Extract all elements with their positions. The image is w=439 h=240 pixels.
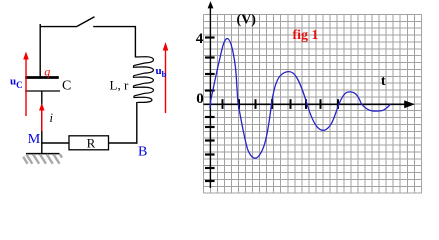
- switch K blade: [77, 17, 95, 27]
- svg-text:R: R: [87, 135, 96, 150]
- wire M to resistor: [41, 142, 69, 144]
- wire right vertical upper (coil to top): [134, 26, 136, 58]
- x-axis: [204, 100, 416, 108]
- svg-text:4: 4: [196, 31, 204, 47]
- ground hatching: [23, 154, 62, 164]
- svg-text:M: M: [28, 132, 41, 147]
- wire below capacitor to M: [41, 91, 43, 143]
- svg-text:B: B: [138, 144, 147, 159]
- svg-text:L, r: L, r: [110, 78, 129, 93]
- svg-text:C: C: [62, 79, 71, 94]
- voltage arrow ub: [163, 42, 169, 113]
- ground plate: [26, 153, 60, 155]
- wire right vertical lower (B to coil): [136, 102, 138, 144]
- damped oscillation curve: [210, 39, 391, 159]
- y-axis ticks: [205, 38, 215, 182]
- capacitor C bottom plate: [25, 90, 60, 92]
- svg-text:t: t: [381, 74, 386, 89]
- wire top-left horizontal: [40, 26, 77, 28]
- svg-text:0: 0: [196, 91, 204, 107]
- svg-text:q: q: [44, 65, 50, 79]
- x-axis ticks: [223, 99, 339, 109]
- svg-text:fig 1: fig 1: [293, 28, 319, 43]
- svg-text:(V): (V): [237, 13, 257, 28]
- voltage arrow uC: [23, 52, 29, 117]
- current arrow i: [39, 103, 45, 131]
- svg-text:i: i: [50, 111, 54, 125]
- wire top-right horizontal: [93, 26, 135, 28]
- wire M to ground: [41, 143, 43, 154]
- resistor R box: [69, 136, 109, 150]
- y-axis: [208, 1, 214, 188]
- wire left vertical (top plate to corner): [39, 24, 41, 77]
- capacitor C top plate: [25, 76, 59, 79]
- inductor L,r coil: [133, 57, 153, 103]
- wire resistor to B corner: [109, 142, 138, 144]
